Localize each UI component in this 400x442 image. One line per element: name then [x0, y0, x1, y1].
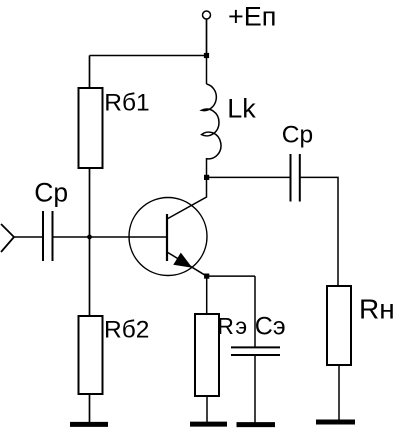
transistor VT circle: [129, 198, 207, 276]
node base junction: [87, 235, 92, 240]
svg-text:Rб1: Rб1: [104, 90, 149, 117]
wire input to Cp: [14, 236, 43, 238]
wire emitter node to Ce branch: [207, 275, 255, 277]
resistor Rн: [327, 286, 351, 365]
svg-text:Cр: Cр: [282, 122, 313, 149]
capacitor Cр output: [290, 154, 292, 202]
resistor Rб2: [79, 316, 103, 394]
ground under Сэ: [237, 422, 276, 427]
transistor collector lead: [167, 177, 207, 219]
node junction top: [204, 53, 209, 58]
transistor emitter lead: [167, 252, 207, 276]
svg-text:Cр: Cр: [34, 178, 68, 208]
ground under Rэ: [190, 422, 227, 427]
wire Re to ground: [206, 396, 208, 423]
ground under Rб2: [70, 422, 108, 427]
svg-text:+Еп: +Еп: [228, 2, 276, 32]
svg-text:Rэ: Rэ: [217, 313, 248, 339]
wire terminal to node: [206, 19, 208, 56]
wire emitter to Re: [206, 276, 208, 314]
node collector junction: [204, 175, 209, 180]
svg-text:Rн: Rн: [359, 293, 395, 324]
wire Cp to base: [53, 236, 168, 238]
capacitor Cр input: [42, 211, 44, 261]
wire Cp to Rn: [300, 177, 338, 286]
wire collector node to output Cp: [207, 176, 291, 178]
emitter arrow: [173, 253, 192, 268]
wire node to Lk: [206, 56, 208, 85]
wire Rn to ground: [338, 365, 340, 422]
terminal +Ep: [203, 11, 211, 19]
transistor base bar: [166, 214, 168, 261]
ground under Rн: [316, 420, 355, 425]
resistor Rэ: [195, 314, 219, 396]
wire Ce to ground: [254, 355, 256, 423]
resistor Rб1: [79, 88, 103, 168]
wire top horizontal: [90, 55, 207, 57]
wire Rb1 bottom to base node to Rb2: [89, 168, 91, 316]
wire Rb2 to ground: [89, 394, 91, 423]
wire to Rb1 top: [89, 56, 91, 89]
input chevron: [1, 224, 14, 252]
svg-text:Lk: Lk: [227, 94, 256, 124]
inductor Lk: [202, 84, 221, 159]
svg-text:Сэ: Сэ: [255, 313, 286, 341]
svg-text:Rб2: Rб2: [104, 316, 149, 343]
capacitor Сэ: [231, 346, 280, 348]
node emitter junction: [204, 274, 209, 279]
wire Lk to collector node: [206, 158, 208, 177]
